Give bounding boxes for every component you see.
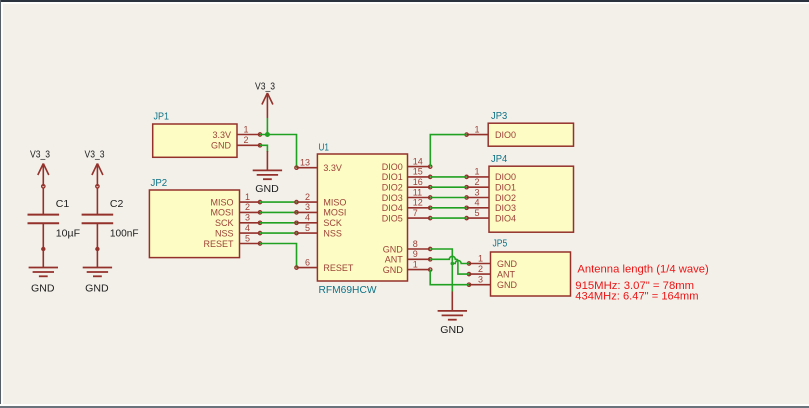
svg-text:RESET: RESET bbox=[323, 263, 354, 273]
wire SCK net bbox=[260, 222, 297, 224]
wire V3_3 down to junction bbox=[266, 118, 268, 135]
svg-text:16: 16 bbox=[413, 177, 423, 187]
svg-text:V3_3: V3_3 bbox=[255, 80, 275, 92]
svg-text:SCK: SCK bbox=[323, 218, 342, 228]
JP4 pin 4 bbox=[465, 206, 489, 209]
JP4 pin 2 bbox=[465, 186, 489, 189]
svg-text:8: 8 bbox=[413, 239, 418, 249]
svg-text:DIO2: DIO2 bbox=[495, 193, 516, 203]
svg-text:3.3V: 3.3V bbox=[212, 130, 231, 140]
junction dot (C2 lead) bbox=[95, 247, 99, 251]
U1 pin 11 (DIO3) right bbox=[408, 196, 432, 199]
svg-text:2: 2 bbox=[243, 135, 248, 145]
svg-text:Antenna length (1/4 wave): Antenna length (1/4 wave) bbox=[577, 263, 708, 275]
ground lead (U1) bbox=[451, 292, 453, 311]
op-amp/IC U1 RFM69HCW bbox=[317, 154, 407, 281]
svg-text:1: 1 bbox=[474, 167, 479, 177]
svg-text:100nF: 100nF bbox=[110, 227, 139, 239]
wire ANT net (U1 pin9 to JP5 pin2) with hop bbox=[430, 256, 469, 274]
svg-text:12: 12 bbox=[413, 198, 423, 208]
U1 pin 14 (DIO0) right bbox=[408, 165, 432, 168]
svg-text:DIO0: DIO0 bbox=[495, 130, 516, 140]
svg-text:U1: U1 bbox=[319, 143, 330, 154]
U1 pin 3 (MOSI) bbox=[295, 211, 318, 214]
svg-text:1: 1 bbox=[245, 192, 250, 202]
svg-text:9: 9 bbox=[413, 249, 418, 259]
svg-text:5: 5 bbox=[245, 233, 250, 243]
svg-text:DIO3: DIO3 bbox=[495, 203, 516, 213]
JP5 pin 3 bbox=[467, 283, 490, 286]
svg-text:10µF: 10µF bbox=[56, 227, 80, 239]
JP2 pin 1 bbox=[240, 200, 262, 203]
svg-text:NSS: NSS bbox=[323, 228, 342, 238]
connector JP5 bbox=[491, 252, 571, 296]
svg-text:4: 4 bbox=[245, 223, 250, 233]
connector JP4 bbox=[489, 166, 574, 232]
supply symbol V3_3 (C2) bbox=[92, 164, 103, 189]
U1 pin 16 (DIO2) right bbox=[408, 186, 432, 189]
svg-text:434MHz: 6.47" = 164mm: 434MHz: 6.47" = 164mm bbox=[575, 291, 698, 303]
svg-text:MISO: MISO bbox=[210, 197, 233, 207]
svg-text:14: 14 bbox=[413, 156, 423, 166]
svg-text:1: 1 bbox=[474, 124, 479, 134]
wire DIO4 net (U1 to JP4) bbox=[430, 207, 466, 209]
wire DIO3 net (U1 to JP4) bbox=[430, 197, 466, 199]
JP1 pin 1 bbox=[237, 133, 262, 136]
ground symbol GND (U1) bbox=[438, 311, 467, 320]
U1 pin 5 (NSS) bbox=[295, 231, 318, 234]
JP2 pin 3 bbox=[240, 221, 262, 224]
wire JP1 pin2 to GND bbox=[260, 145, 267, 152]
svg-text:V3_3: V3_3 bbox=[30, 149, 50, 161]
wire JP1 pin1 to U1 pin13 (3.3V net) bbox=[260, 135, 297, 168]
U1 pin 6 (RESET) bbox=[295, 266, 318, 269]
junction dot V3_3 net bbox=[265, 132, 270, 137]
wire V3_3 to C1 bbox=[42, 188, 44, 215]
wire MOSI net bbox=[260, 211, 297, 213]
svg-text:3: 3 bbox=[474, 187, 479, 197]
svg-text:JP1: JP1 bbox=[154, 112, 170, 123]
svg-text:GND: GND bbox=[497, 259, 518, 269]
JP2 pin 5 bbox=[240, 242, 262, 245]
JP5 pin 1 bbox=[467, 262, 490, 265]
wire MISO net bbox=[260, 201, 297, 203]
svg-text:3: 3 bbox=[245, 213, 250, 223]
svg-text:C2: C2 bbox=[110, 198, 124, 210]
wire GND (JP5 pin1 to ground vertical) with hop bbox=[452, 261, 469, 264]
svg-text:JP3: JP3 bbox=[491, 111, 508, 122]
U1 pin 4 (SCK) bbox=[295, 221, 318, 224]
supply symbol V3_3 (JP1) bbox=[262, 93, 273, 118]
svg-text:3.3V: 3.3V bbox=[323, 163, 342, 173]
svg-text:2: 2 bbox=[474, 177, 479, 187]
U1 pin 9 (ANT) right bbox=[408, 258, 432, 261]
wire DIO5 net (U1 to JP4) bbox=[430, 217, 466, 219]
svg-text:2: 2 bbox=[478, 264, 483, 274]
capacitor C1 bbox=[28, 215, 60, 224]
svg-text:DIO2: DIO2 bbox=[382, 183, 403, 193]
wire GND net (U1 pin1 to JP5 pin3) bbox=[430, 270, 469, 285]
svg-text:15: 15 bbox=[413, 167, 423, 177]
svg-text:2: 2 bbox=[305, 192, 310, 202]
svg-text:GND: GND bbox=[211, 141, 232, 151]
svg-text:DIO4: DIO4 bbox=[382, 203, 403, 213]
svg-text:GND: GND bbox=[383, 265, 404, 275]
junction dot GND net bbox=[451, 262, 455, 266]
svg-text:ANT: ANT bbox=[497, 269, 516, 279]
wire V3_3 to C2 bbox=[96, 188, 98, 215]
svg-text:MOSI: MOSI bbox=[323, 208, 346, 218]
JP2 pin 2 bbox=[240, 211, 262, 214]
connector JP2 bbox=[149, 190, 239, 258]
U1 pin 13 (3.3V) bbox=[295, 166, 318, 169]
wire DIO1 net (U1 to JP4) bbox=[430, 176, 466, 178]
svg-text:1: 1 bbox=[243, 124, 248, 134]
svg-text:6: 6 bbox=[305, 257, 310, 267]
JP1 pin 2 bbox=[237, 144, 262, 147]
U1 pin 1 (GND) right bbox=[408, 268, 432, 271]
svg-text:3: 3 bbox=[305, 202, 310, 212]
JP4 pin 1 bbox=[465, 175, 489, 178]
junction dot (C1 lead) bbox=[41, 247, 45, 251]
wire DIO2 net (U1 to JP4) bbox=[430, 186, 466, 188]
svg-text:GND: GND bbox=[440, 324, 464, 336]
svg-text:5: 5 bbox=[474, 208, 479, 218]
svg-text:C1: C1 bbox=[56, 198, 70, 210]
wire GND net (U1 pin8 down to ground) bbox=[430, 249, 452, 292]
svg-text:NSS: NSS bbox=[215, 228, 234, 238]
svg-text:5: 5 bbox=[305, 223, 310, 233]
ground symbol GND (JP1) bbox=[253, 170, 282, 179]
JP2 pin 4 bbox=[240, 231, 262, 234]
svg-text:GND: GND bbox=[497, 280, 518, 290]
wire C2 to GND bbox=[96, 223, 98, 267]
svg-text:RESET: RESET bbox=[203, 239, 234, 249]
svg-text:DIO0: DIO0 bbox=[382, 162, 403, 172]
wire DIO0 net (U1 pin14 to JP3) bbox=[430, 135, 466, 167]
U1 pin 12 (DIO4) right bbox=[408, 206, 432, 209]
svg-text:DIO3: DIO3 bbox=[382, 193, 403, 203]
ground symbol GND (C2) bbox=[83, 268, 112, 277]
JP4 pin 5 bbox=[465, 216, 489, 219]
svg-text:V3_3: V3_3 bbox=[85, 149, 105, 161]
connector JP3 bbox=[488, 123, 573, 146]
U1 pin 8 (GND) right bbox=[408, 247, 432, 250]
U1 pin 7 (DIO5) right bbox=[408, 216, 432, 219]
capacitor C2 bbox=[82, 215, 114, 224]
svg-text:2: 2 bbox=[245, 202, 250, 212]
svg-text:JP5: JP5 bbox=[493, 239, 508, 250]
ground lead (JP1) bbox=[266, 151, 268, 170]
svg-text:RFM69HCW: RFM69HCW bbox=[319, 285, 378, 296]
svg-text:GND: GND bbox=[31, 283, 55, 295]
connector JP1 bbox=[153, 124, 237, 157]
svg-text:3: 3 bbox=[478, 275, 483, 285]
svg-text:GND: GND bbox=[383, 244, 404, 254]
svg-text:1: 1 bbox=[478, 253, 483, 263]
svg-text:GND: GND bbox=[255, 183, 279, 195]
svg-text:DIO5: DIO5 bbox=[382, 213, 403, 223]
svg-text:11: 11 bbox=[413, 187, 422, 197]
supply symbol V3_3 (C1) bbox=[38, 164, 49, 189]
U1 pin 15 (DIO1) right bbox=[408, 175, 432, 178]
svg-text:4: 4 bbox=[474, 198, 479, 208]
wire RESET net bbox=[260, 244, 297, 268]
svg-text:1: 1 bbox=[413, 259, 418, 269]
wire C1 to GND bbox=[42, 223, 44, 267]
svg-text:DIO0: DIO0 bbox=[495, 172, 516, 182]
ground symbol GND (C1) bbox=[29, 268, 58, 277]
svg-text:7: 7 bbox=[413, 208, 418, 218]
svg-text:MOSI: MOSI bbox=[210, 208, 233, 218]
svg-text:MISO: MISO bbox=[323, 197, 346, 207]
wire NSS net bbox=[260, 232, 297, 234]
svg-text:DIO1: DIO1 bbox=[495, 183, 516, 193]
svg-text:JP4: JP4 bbox=[491, 154, 508, 165]
svg-text:JP2: JP2 bbox=[151, 178, 168, 189]
JP5 pin 2 bbox=[467, 272, 490, 275]
svg-text:ANT: ANT bbox=[385, 255, 404, 265]
U1 pin 2 (MISO) bbox=[295, 200, 318, 203]
svg-text:13: 13 bbox=[300, 158, 310, 168]
svg-text:SCK: SCK bbox=[215, 218, 234, 228]
JP3 pin 1 bbox=[465, 133, 488, 136]
JP4 pin 3 bbox=[465, 196, 489, 199]
svg-text:GND: GND bbox=[85, 283, 109, 295]
svg-text:4: 4 bbox=[305, 213, 310, 223]
svg-text:DIO1: DIO1 bbox=[382, 172, 403, 182]
svg-text:DIO4: DIO4 bbox=[495, 213, 516, 223]
